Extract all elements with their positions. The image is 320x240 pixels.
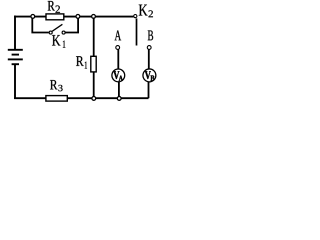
resistor R3 — [46, 96, 67, 102]
label K1 (subscript 1) — [63, 41, 65, 48]
voltmeter VB subscript B — [151, 76, 155, 81]
wire: bottom horizontal rail — [14, 97, 148, 99]
voltmeter VA symbol V — [113, 71, 119, 79]
battery cell plate 3 (long) — [8, 58, 23, 60]
battery cell plate 1 (long) — [8, 49, 23, 51]
switch K1 left contact — [49, 31, 52, 34]
wire: terminal B to voltmeter VB — [148, 49, 150, 69]
switch K1 right contact — [62, 31, 65, 34]
label K1 (letter K) — [52, 35, 60, 45]
switch K2 contact — [134, 15, 137, 18]
wire: K1 branch left drop — [32, 18, 49, 33]
voltmeter VB body — [143, 69, 156, 82]
label K2 (letter K) — [139, 5, 148, 16]
label R1 (letter R) — [76, 56, 84, 66]
node junction R1 bottom — [92, 97, 96, 101]
node junction R1 top — [92, 15, 96, 19]
label R2 (letter R) — [48, 1, 55, 11]
battery cell plate 2 (short) — [12, 54, 19, 56]
wire: R1 top lead — [93, 18, 95, 57]
switch K1 lever — [52, 24, 62, 31]
label R3 (subscript 3) — [58, 85, 62, 91]
voltmeter VA body — [112, 69, 125, 82]
switch K2 open blade — [136, 18, 138, 45]
voltmeter VA subscript A — [119, 76, 123, 81]
label K2 (subscript 2) — [149, 10, 153, 17]
node junction top left — [31, 15, 35, 19]
node junction top middle — [76, 15, 80, 19]
resistor R1 — [91, 56, 96, 72]
wire: terminal A to voltmeter VA — [117, 49, 119, 69]
wire: left vertical rail (battery top lead) — [14, 16, 16, 50]
label R1 (subscript 1) — [85, 62, 87, 69]
battery cell plate 4 (short) — [12, 63, 19, 65]
voltmeter VB symbol V — [145, 71, 151, 79]
wire: top horizontal rail — [14, 16, 133, 18]
resistor R2 — [46, 14, 64, 20]
wire: VB bottom lead — [148, 82, 150, 98]
wire: R1 bottom lead — [93, 73, 95, 98]
terminal A — [116, 46, 120, 50]
terminal B — [147, 46, 151, 50]
label R3 (letter R) — [50, 80, 57, 89]
wire: K1 branch right rise — [65, 18, 78, 33]
node A label — [115, 31, 122, 41]
wire: VA bottom lead — [118, 82, 120, 97]
wire: battery bottom lead — [14, 64, 16, 99]
node B label — [148, 31, 153, 41]
node junction VA bottom — [117, 97, 121, 101]
label R2 (subscript 2) — [56, 6, 60, 13]
